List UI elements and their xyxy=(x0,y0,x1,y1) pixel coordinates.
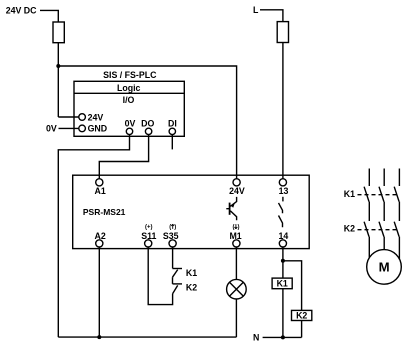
svg-text:S35: S35 xyxy=(163,231,179,241)
terminal 14 xyxy=(279,240,286,247)
svg-text:K1: K1 xyxy=(186,268,197,278)
svg-text:PSR-MS21: PSR-MS21 xyxy=(83,207,126,217)
wire 14 down to junction xyxy=(282,247,284,261)
svg-text:I/O: I/O xyxy=(123,95,135,105)
svg-text:L: L xyxy=(253,5,259,15)
svg-text:DO: DO xyxy=(141,119,154,129)
wire F1 down to SIS 24V terminal xyxy=(57,43,59,117)
bottom rail 0V xyxy=(58,336,236,338)
svg-text:M1: M1 xyxy=(229,231,241,241)
svg-text:24V DC: 24V DC xyxy=(6,6,37,16)
wire to SIS 24V terminal xyxy=(58,116,79,118)
N rail xyxy=(263,336,302,338)
phase wires between contacts xyxy=(369,202,399,221)
lamp indicator xyxy=(227,279,247,299)
contact 13-14 inside PSR xyxy=(279,197,283,228)
wire F2 down to PSR terminal 13 xyxy=(282,43,284,179)
K2 linkage dashed xyxy=(358,229,400,231)
wire K2 coil to N rail xyxy=(301,321,303,338)
svg-text:K1: K1 xyxy=(277,279,288,289)
coil K2 xyxy=(292,310,312,320)
wire from 24V DC to fuse F1 xyxy=(40,10,58,22)
coil K1 xyxy=(272,278,292,289)
wire lamp down to bottom rail xyxy=(235,299,237,337)
wire junction A to PSR 24V terminal xyxy=(58,66,236,179)
svg-text:24V: 24V xyxy=(229,186,245,196)
terminal 24V of PLC xyxy=(79,114,86,121)
wire K1 coil to N rail xyxy=(282,289,284,338)
motor M xyxy=(367,250,402,285)
svg-text:14: 14 xyxy=(279,231,289,241)
wire A2 down to bottom rail xyxy=(98,247,100,337)
svg-text:DI: DI xyxy=(168,119,177,129)
junction dot at A2/rail xyxy=(97,335,101,339)
transistor semiconductor output xyxy=(226,197,236,220)
terminal GND of PLC xyxy=(79,125,86,132)
wire DI stub xyxy=(171,135,173,150)
Logic compartment divider xyxy=(74,92,184,94)
svg-text:SIS / FS-PLC: SIS / FS-PLC xyxy=(103,70,157,80)
wire 0V to SIS GND terminal xyxy=(59,127,79,129)
svg-text:(+): (+) xyxy=(145,225,153,231)
svg-text:0V: 0V xyxy=(125,119,136,129)
wire M1 down to lamp xyxy=(235,247,237,279)
svg-text:GND: GND xyxy=(88,124,108,134)
wire S11 down right to feedback loop xyxy=(148,247,172,305)
phase wires to motor xyxy=(369,237,399,260)
wire to K1 coil xyxy=(282,261,284,278)
wire S35 down to contact K1 xyxy=(172,247,174,268)
svg-text:0V: 0V xyxy=(46,124,57,134)
wire L to fuse F2 xyxy=(260,10,283,22)
fuse F2 xyxy=(277,22,288,43)
K1 linkage dashed xyxy=(358,194,400,196)
svg-text:13: 13 xyxy=(279,186,289,196)
svg-text:24V: 24V xyxy=(88,112,104,122)
contact K2 feedback xyxy=(173,284,183,294)
svg-text:K2: K2 xyxy=(296,311,307,321)
contactor K2 contacts 3-pole xyxy=(364,222,399,237)
svg-text:S11: S11 xyxy=(141,231,156,241)
junction dot on N rail xyxy=(281,335,285,339)
svg-text:K2: K2 xyxy=(344,224,355,234)
relay PSR-MS21 box xyxy=(73,175,310,248)
terminal A2 xyxy=(96,240,103,247)
svg-text:M: M xyxy=(379,259,390,274)
wire branch to K2 coil xyxy=(283,261,302,311)
svg-text:K2: K2 xyxy=(186,283,197,293)
wire 0V terminal to left rail xyxy=(58,135,129,338)
wire DO terminal to A1 xyxy=(99,135,148,179)
wire between K1 and K2 contacts xyxy=(172,277,174,284)
svg-text:K1: K1 xyxy=(344,189,355,199)
svg-text:Logic: Logic xyxy=(117,83,141,93)
junction dot at 14 branch xyxy=(281,259,285,263)
svg-text:N: N xyxy=(253,332,259,342)
fuse F1 xyxy=(53,22,64,43)
contact K1 feedback xyxy=(173,269,183,278)
terminal A1 xyxy=(96,179,103,186)
motor branch phase wires top xyxy=(369,169,399,187)
svg-text:A2: A2 xyxy=(94,231,105,241)
svg-text:A1: A1 xyxy=(94,186,105,196)
contactor K1 contacts 3-pole xyxy=(364,187,399,202)
terminal 24V of PSR xyxy=(233,179,240,186)
junction dot A xyxy=(56,64,60,68)
terminal 13 xyxy=(279,179,286,186)
